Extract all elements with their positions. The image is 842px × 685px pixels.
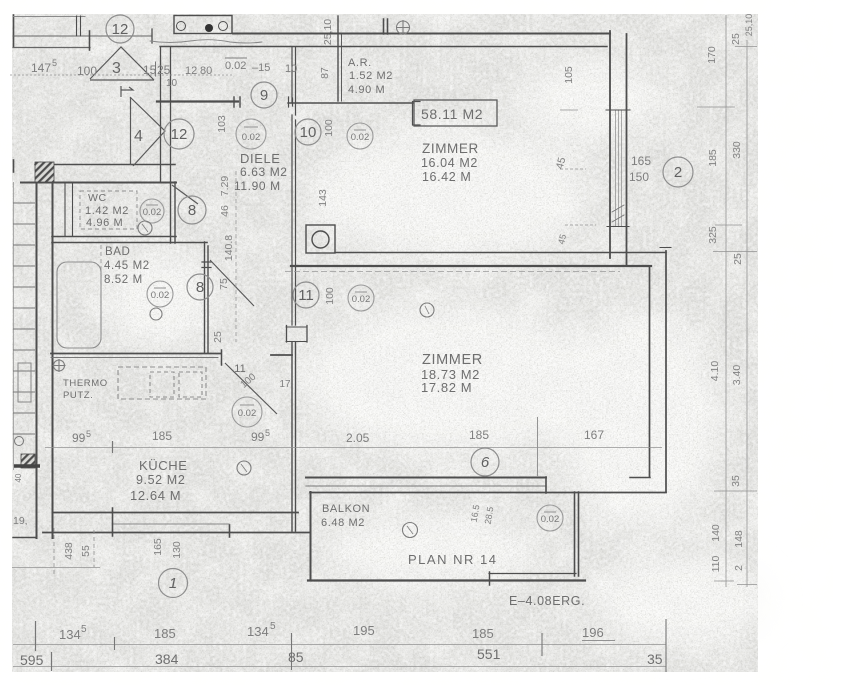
svg-text:8: 8 (188, 202, 196, 219)
svg-text:11: 11 (298, 287, 314, 304)
svg-text:551: 551 (477, 646, 501, 662)
svg-text:196: 196 (582, 625, 604, 640)
svg-text:BALKON: BALKON (322, 503, 370, 515)
svg-text:143: 143 (317, 189, 329, 207)
svg-text:170: 170 (706, 46, 718, 64)
svg-text:100: 100 (323, 119, 335, 137)
svg-text:5: 5 (270, 621, 276, 632)
svg-text:87: 87 (319, 67, 331, 79)
svg-text:9: 9 (260, 87, 268, 104)
svg-text:12: 12 (185, 65, 197, 77)
svg-text:8.52 M: 8.52 M (104, 274, 143, 286)
svg-text:25: 25 (730, 33, 742, 45)
svg-text:–15: –15 (252, 62, 270, 74)
svg-text:WC: WC (88, 192, 107, 204)
svg-text:147: 147 (31, 61, 51, 75)
svg-text:PLAN NR 14: PLAN NR 14 (408, 552, 497, 567)
svg-text:11.90 M: 11.90 M (234, 179, 281, 193)
svg-text:330: 330 (731, 141, 743, 159)
svg-text:0.02: 0.02 (351, 132, 370, 143)
svg-text:99: 99 (251, 430, 265, 444)
svg-text:105: 105 (563, 66, 575, 84)
svg-text:10: 10 (285, 63, 297, 75)
svg-text:35: 35 (730, 475, 742, 487)
svg-text:1.52 M2: 1.52 M2 (349, 70, 393, 82)
svg-text:16.42 M: 16.42 M (422, 170, 471, 184)
svg-text:58.11 M2: 58.11 M2 (421, 106, 483, 122)
svg-text:25: 25 (732, 253, 744, 265)
svg-text:25,10: 25,10 (322, 19, 334, 45)
svg-text:ZIMMER: ZIMMER (422, 352, 483, 368)
svg-text:1: 1 (169, 575, 177, 592)
svg-text:KÜCHE: KÜCHE (139, 458, 188, 473)
svg-text:130: 130 (171, 541, 183, 559)
svg-text:0.02: 0.02 (151, 290, 170, 301)
svg-text:10: 10 (166, 78, 178, 89)
svg-text:165: 165 (152, 538, 164, 556)
svg-text:140: 140 (710, 524, 722, 542)
svg-text:4.90 M: 4.90 M (348, 84, 385, 96)
svg-text:12.64 M: 12.64 M (130, 488, 181, 503)
svg-text:DIELE: DIELE (240, 151, 281, 166)
svg-text:19,: 19, (13, 515, 28, 527)
svg-text:10: 10 (300, 124, 317, 141)
svg-text:0.02: 0.02 (238, 408, 257, 419)
svg-text:3.40: 3.40 (731, 365, 743, 386)
svg-text:3: 3 (112, 60, 121, 77)
svg-text:8: 8 (196, 279, 204, 296)
svg-text:148: 148 (733, 530, 745, 548)
svg-text:9.52 M2: 9.52 M2 (136, 473, 185, 487)
svg-text:99: 99 (72, 431, 86, 445)
svg-text:185: 185 (472, 626, 494, 641)
svg-text:55: 55 (80, 545, 92, 557)
svg-text:12: 12 (171, 126, 188, 143)
svg-text:E–4.08ERG.: E–4.08ERG. (509, 594, 585, 608)
svg-text:438: 438 (63, 542, 75, 560)
svg-text:100: 100 (324, 287, 336, 305)
svg-text:7.29: 7.29 (219, 176, 231, 197)
svg-text:2.05: 2.05 (346, 431, 370, 445)
svg-text:167: 167 (584, 428, 604, 442)
svg-text:17: 17 (279, 379, 291, 390)
svg-text:PUTZ.: PUTZ. (63, 390, 93, 401)
svg-text:595: 595 (20, 652, 44, 668)
svg-text:185: 185 (152, 429, 172, 443)
svg-text:80: 80 (200, 65, 212, 77)
svg-text:185: 185 (707, 149, 719, 167)
svg-text:1.42 M2: 1.42 M2 (85, 205, 129, 217)
svg-text:4: 4 (134, 128, 143, 145)
svg-text:16.04 M2: 16.04 M2 (421, 156, 478, 170)
svg-text:25: 25 (157, 63, 171, 77)
svg-text:2: 2 (674, 164, 682, 181)
svg-text:5: 5 (265, 428, 270, 438)
svg-text:2: 2 (733, 565, 745, 571)
svg-text:0.02: 0.02 (541, 514, 560, 525)
svg-text:325: 325 (707, 226, 719, 244)
svg-text:5: 5 (52, 58, 57, 68)
svg-text:12: 12 (112, 21, 129, 38)
svg-text:6.48 M2: 6.48 M2 (321, 517, 365, 529)
svg-text:103: 103 (216, 115, 228, 133)
svg-text:A.R.: A.R. (348, 57, 372, 69)
svg-text:150: 150 (629, 170, 649, 184)
svg-text:384: 384 (155, 651, 179, 667)
svg-text:46: 46 (219, 205, 231, 217)
svg-text:4.45 M2: 4.45 M2 (104, 260, 150, 272)
svg-text:4.96 M: 4.96 M (86, 217, 123, 229)
svg-text:THERMO: THERMO (63, 378, 108, 389)
svg-text:11: 11 (234, 363, 245, 375)
svg-text:25: 25 (212, 331, 224, 343)
svg-text:85: 85 (288, 649, 304, 665)
svg-text:140.8: 140.8 (223, 235, 235, 261)
svg-text:185: 185 (154, 626, 176, 641)
svg-text:4.10: 4.10 (709, 361, 721, 382)
svg-text:110: 110 (710, 555, 722, 572)
svg-text:6.63 M2: 6.63 M2 (240, 165, 288, 179)
svg-text:5: 5 (81, 624, 87, 635)
svg-text:40: 40 (14, 473, 23, 482)
svg-text:100: 100 (77, 64, 97, 78)
svg-text:165: 165 (631, 154, 651, 168)
svg-text:75: 75 (218, 278, 230, 290)
svg-text:0.02: 0.02 (352, 294, 371, 305)
svg-text:134: 134 (247, 624, 269, 639)
svg-text:0.02: 0.02 (225, 60, 246, 72)
svg-text:195: 195 (353, 623, 375, 638)
svg-text:ZIMMER: ZIMMER (422, 141, 479, 156)
svg-text:17.82 M: 17.82 M (421, 380, 472, 395)
svg-text:5: 5 (86, 429, 91, 439)
svg-text:15: 15 (143, 63, 157, 77)
svg-text:0.02: 0.02 (242, 132, 261, 143)
svg-text:6: 6 (481, 454, 490, 471)
svg-text:185: 185 (469, 428, 489, 442)
svg-text:0.02: 0.02 (143, 207, 162, 218)
svg-text:BAD: BAD (105, 246, 130, 258)
svg-text:134: 134 (59, 627, 81, 642)
svg-text:25,10: 25,10 (744, 14, 754, 37)
svg-text:35: 35 (647, 651, 663, 667)
